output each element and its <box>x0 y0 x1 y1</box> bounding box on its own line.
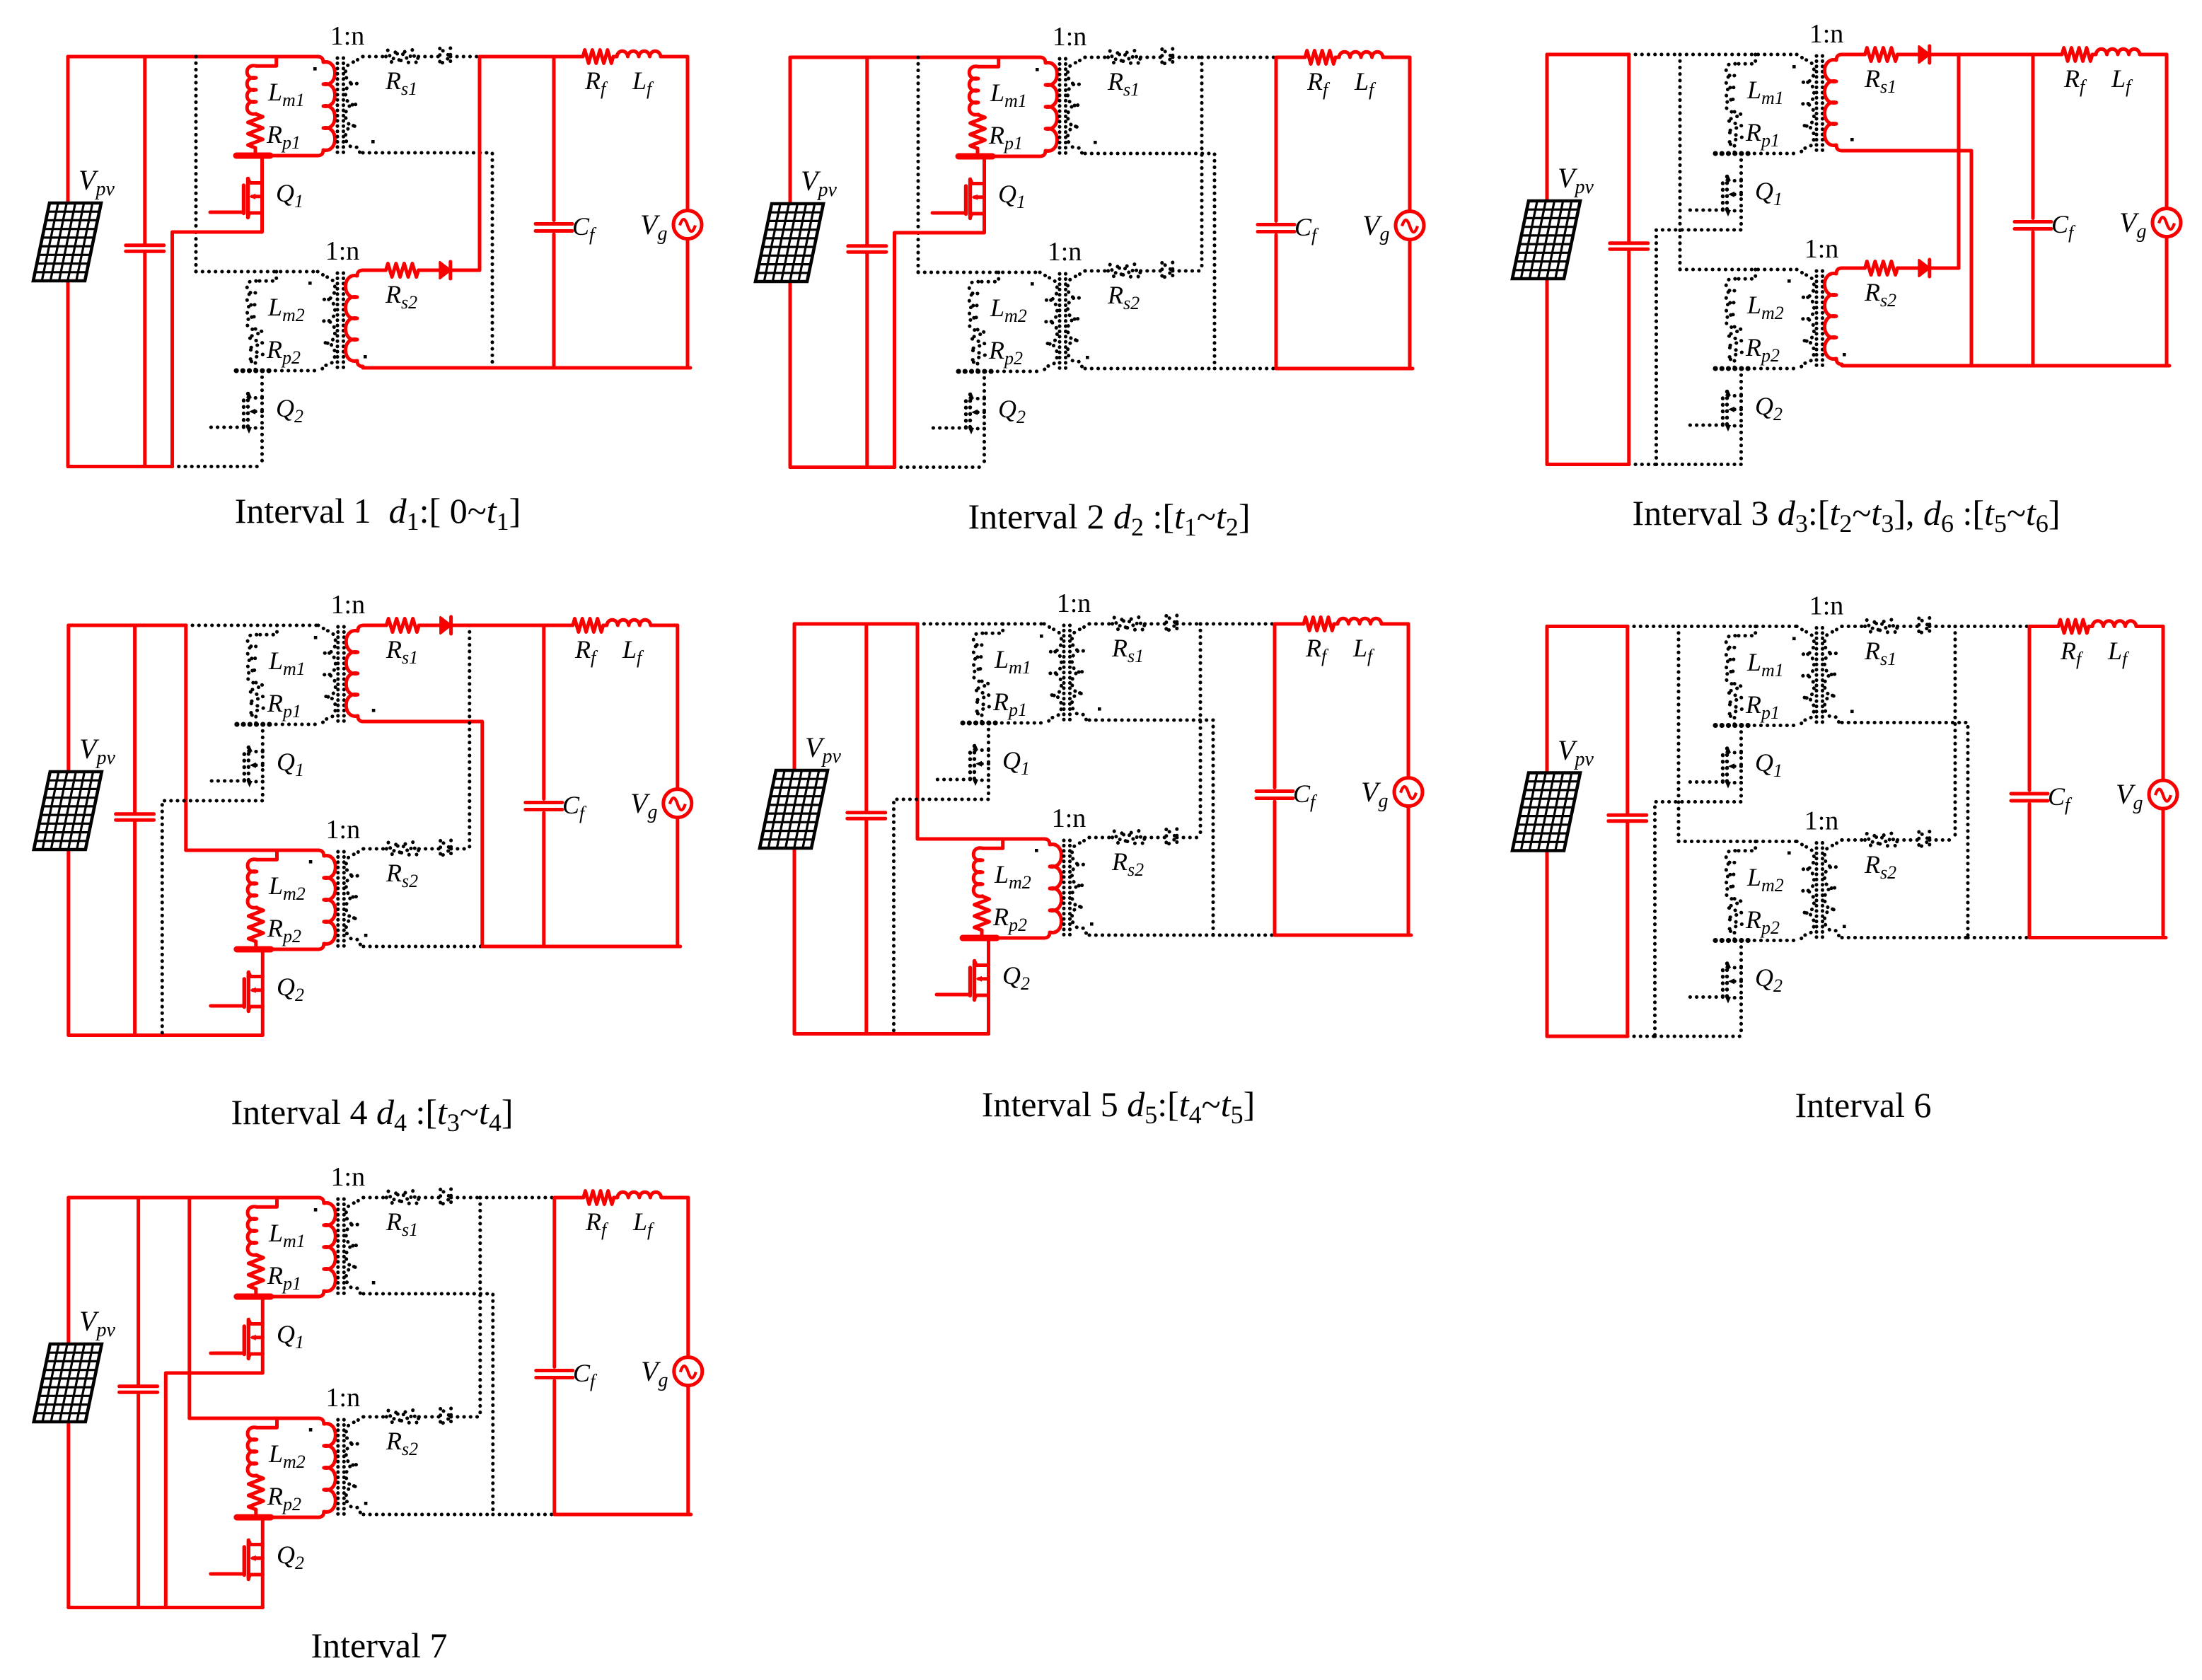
wire left rail (Vpv -) <box>789 282 792 468</box>
wire primary-2 top <box>918 271 1040 274</box>
wire Rs1 to diode <box>419 624 440 627</box>
wire secondary-1 bottom return <box>1085 153 1215 369</box>
wire top rail segment D (Cf to Rf) <box>555 1196 584 1200</box>
wire left rail (Vpv +) <box>66 1198 70 1344</box>
wire top rail segment D (Cf to Rf) <box>2029 625 2058 628</box>
core T1 <box>1064 625 1070 723</box>
wire vjoin (sec outputs to top rail) <box>478 57 482 270</box>
wire Rs1 to diode <box>1145 622 1166 626</box>
inductor Lm2 <box>1726 279 1735 328</box>
svg-text:1:n: 1:n <box>325 236 360 266</box>
phase dot T1 secondary <box>371 140 375 144</box>
phase dot T2 secondary <box>364 1502 368 1505</box>
transformer T2 primary winding (1:n) <box>318 272 335 371</box>
transformer T2 primary winding (1:n) <box>1797 842 1814 941</box>
wire top rail segment D (Cf to Rf) <box>2033 53 2062 57</box>
resistor Rp1 <box>248 683 263 717</box>
phase dot T2 primary <box>309 860 313 864</box>
inductor Lm1 branch tap wire <box>978 57 999 66</box>
resistor Rs1 <box>386 619 419 632</box>
wire left rail (Vpv +) <box>789 57 792 204</box>
capacitor Cf <box>1256 624 1293 935</box>
wire Rs2 to diode <box>1141 270 1162 273</box>
wire vjoin (sec outputs to top rail) <box>1954 627 1957 840</box>
wire primary 2 bottom + drain bar <box>958 370 1040 373</box>
wire left rail (Vpv +) <box>66 57 70 203</box>
wire Rp1 bottom stub <box>1733 718 1737 726</box>
svg-text:Interval 5 d5:[t4~t5]: Interval 5 d5:[t4~t5] <box>982 1084 1256 1129</box>
inductor Lm1 branch tap wire <box>983 624 1003 633</box>
inductor Lm1 <box>248 1207 257 1255</box>
inductor Lm2 <box>247 281 256 330</box>
wire top rail segment A <box>1547 625 1628 628</box>
wire primary-2 feed (top rail to T2) <box>1679 54 1682 270</box>
svg-text:1:n: 1:n <box>1052 804 1086 833</box>
wire Rs2 to diode <box>1898 267 1919 270</box>
wire secondary-1 bottom return <box>1089 720 1213 935</box>
svg-text:1:n: 1:n <box>1053 22 1087 52</box>
PV panel Vpv (photovoltaic source) <box>34 772 102 850</box>
transistor Q2 (MOSFET) <box>932 371 985 468</box>
phase dot T2 primary <box>309 1428 313 1432</box>
transformer T2 secondary winding <box>1068 271 1086 367</box>
transformer T2 secondary winding <box>346 270 364 366</box>
transistor Q1 (MOSFET) <box>1657 153 1742 465</box>
wire Rp1 bottom stub <box>254 1289 257 1297</box>
wire Rp1 bottom stub <box>1733 146 1737 153</box>
inductor Lf <box>2092 621 2136 627</box>
wire secondary-1 bottom return <box>1842 151 1971 366</box>
wire bottom output rail a (sec2 to return) <box>364 1513 493 1517</box>
wire primary 2 bottom + drain bar <box>963 937 1044 940</box>
transformer T1 secondary winding <box>1825 627 1843 723</box>
wire Lf to right rail <box>1383 56 1410 59</box>
wire primary-2 top <box>190 1417 318 1420</box>
wire top rail segment B1 <box>139 1196 190 1200</box>
wire top rail segment C <box>470 624 544 627</box>
wire bottom output rail a (sec2 to return) <box>1842 364 1971 368</box>
phase dot T2 secondary <box>364 355 367 359</box>
wire right rail lower <box>1408 240 1412 369</box>
resistor Rs1 <box>1108 51 1141 64</box>
wire right rail lower <box>1407 806 1410 935</box>
wire primary-2 feed (top rail to T2) <box>195 57 198 272</box>
wire Rs2 to diode <box>419 847 440 851</box>
resistor Rs2 <box>1865 833 1898 847</box>
wire top rail segment B1 <box>867 622 917 626</box>
capacitor Cin (input dc-link) <box>120 1198 158 1608</box>
wire secondary 1 top <box>1085 56 1108 59</box>
wire top rail segment B2 <box>918 56 1040 59</box>
wire top rail segment B2 <box>190 1196 318 1200</box>
transistor Q2 (MOSFET) <box>1689 941 1742 1037</box>
core T1 <box>1816 628 1823 726</box>
inductor Lm1 branch tap wire <box>257 1198 277 1207</box>
transformer T2 secondary winding <box>346 1417 364 1513</box>
diode D2 <box>441 1409 451 1425</box>
transformer T2 primary winding (1:n) <box>1044 839 1062 938</box>
wire bottom output rail b (return to Cf) <box>1213 934 1275 937</box>
transformer T1 secondary winding <box>1072 624 1090 720</box>
wire bottom rail segment A <box>1547 1035 1628 1038</box>
wire Rp2 bottom stub <box>254 363 257 371</box>
svg-text:Interval 7: Interval 7 <box>311 1626 448 1665</box>
wire right rail upper <box>2165 54 2169 209</box>
capacitor Cin (input dc-link) <box>848 57 886 468</box>
wire right rail upper <box>1407 624 1410 778</box>
wire top rail segment C <box>480 55 554 59</box>
core T1 <box>338 627 344 724</box>
transformer T1 primary winding (1:n) <box>1040 57 1057 156</box>
resistor Rp2 <box>1727 899 1742 933</box>
capacitor Cin (input dc-link) <box>1610 54 1648 465</box>
wire bottom output rail b (return to Cf) <box>1968 936 2029 939</box>
wire top rail segment B2 <box>1679 625 1797 628</box>
transformer T2 primary winding (1:n) <box>1040 272 1057 371</box>
wire vjoin (sec outputs to top rail) <box>468 625 471 849</box>
wire bottom output rail c (Cf to right rail) <box>1276 367 1413 371</box>
resistor Rf <box>584 1191 614 1205</box>
wire top rail segment D (Cf to Rf) <box>1276 56 1305 59</box>
wire right rail lower <box>676 818 679 946</box>
wire Rf to Lf <box>2089 625 2092 628</box>
wire secondary 1 top <box>1842 53 1865 57</box>
transistor Q1 (MOSFET) <box>162 724 262 1036</box>
wire diode D2 output <box>451 269 480 272</box>
transformer T1 primary winding (1:n) <box>318 57 335 156</box>
phase dot T2 secondary <box>1843 925 1846 929</box>
inductor Lm1 <box>248 635 257 683</box>
inductor Lm1 branch tap wire <box>256 57 277 66</box>
resistor Rs2 <box>1108 265 1141 278</box>
wire top rail segment D (Cf to Rf) <box>554 55 583 59</box>
inductor Lm2 branch tap wire <box>256 272 277 281</box>
wire bottom rail segment B <box>139 1606 166 1609</box>
wire vjoin (sec outputs to top rail) <box>1200 57 1204 271</box>
resistor Rp2 <box>248 908 263 942</box>
transformer T1 secondary winding <box>346 1198 364 1294</box>
wire top rail segment A <box>790 56 867 59</box>
diode D2 <box>1919 832 1930 848</box>
resistor Rs1 <box>1865 620 1898 633</box>
phase dot T1 primary <box>1036 68 1039 71</box>
wire top rail segment B1 <box>1629 53 1680 57</box>
transistor Q2 (MOSFET) <box>937 938 989 1034</box>
resistor Rp1 <box>248 1255 263 1289</box>
resistor Rp1 <box>1727 684 1742 718</box>
wire bottom rail segment A <box>1547 463 1629 466</box>
wire Rp1 bottom stub <box>254 717 257 724</box>
inductor Lm1 branch tap wire <box>1735 627 1756 636</box>
wire bottom rail segment A <box>790 465 867 469</box>
wire top rail segment B1 <box>145 55 196 59</box>
wire secondary-1 bottom return <box>1842 723 1968 938</box>
svg-text:Interval 6: Interval 6 <box>1795 1085 1932 1125</box>
resistor Rf <box>1304 618 1334 631</box>
wire diode D2 output <box>1930 267 1959 270</box>
transformer T1 secondary winding <box>346 625 364 722</box>
AC source Vg <box>1396 212 1424 240</box>
core T1 <box>1816 56 1823 153</box>
svg-text:1:n: 1:n <box>1804 806 1839 836</box>
wire vjoin (sec outputs to top rail) <box>1199 624 1203 838</box>
inductor Lm2 <box>973 848 983 896</box>
diode D1 <box>441 1190 451 1206</box>
PV panel Vpv (photovoltaic source) <box>760 770 828 848</box>
phase dot T1 secondary <box>372 1281 376 1285</box>
core T2 <box>338 852 344 949</box>
phase dot T1 primary <box>314 1208 318 1212</box>
transistor Q1 (MOSFET) <box>166 1297 262 1608</box>
wire top rail segment B2 <box>186 624 318 627</box>
wire Lf to right rail <box>661 1196 688 1200</box>
wire bottom rail segment C <box>162 1033 262 1037</box>
wire secondary 1 top <box>363 55 386 59</box>
transformer T2 primary winding (1:n) <box>318 850 336 949</box>
inductor Lm2 <box>969 282 978 330</box>
inductor Lm1 <box>969 66 978 115</box>
core T2 <box>1816 843 1823 941</box>
phase dot T2 secondary <box>1090 922 1094 926</box>
wire right rail lower <box>686 1386 690 1514</box>
wire primary-2 top <box>1679 840 1797 843</box>
phase dot T2 primary <box>1787 279 1791 283</box>
wire top rail segment A <box>68 55 145 59</box>
AC source Vg <box>664 789 692 818</box>
resistor Rs1 <box>1865 48 1898 62</box>
wire primary-2 feed (top rail to T2) <box>187 1198 191 1418</box>
wire primary 1 bottom + drain bar <box>236 154 318 158</box>
wire bottom rail segment C <box>166 1606 262 1609</box>
capacitor Cin (input dc-link) <box>126 57 164 467</box>
resistor Rs2 <box>386 1410 419 1424</box>
wire right rail lower <box>2165 237 2169 366</box>
wire right rail lower <box>2162 809 2165 937</box>
wire right rail lower <box>686 239 690 368</box>
resistor Rs1 <box>386 1191 419 1205</box>
core T2 <box>1064 840 1070 938</box>
wire top rail segment A <box>1547 53 1629 57</box>
wire Rp1 bottom stub <box>976 149 980 156</box>
resistor Rs2 <box>1865 262 1898 275</box>
wire Rf to Lf <box>1334 622 1338 626</box>
wire Rf to Lf <box>2092 53 2096 57</box>
wire left rail (Vpv -) <box>66 281 70 467</box>
inductor Lf <box>1338 618 1381 624</box>
wire left rail (Vpv +) <box>66 625 70 772</box>
wire bottom rail segment A <box>69 1606 139 1609</box>
wire bottom rail segment C <box>895 465 985 469</box>
wire secondary 2 top <box>363 269 386 272</box>
wire diode D1 output <box>1173 56 1202 59</box>
wire bottom output rail b (return to Cf) <box>1215 367 1276 371</box>
transformer T1 primary winding (1:n) <box>318 1198 336 1297</box>
AC source Vg <box>1394 778 1422 806</box>
wire top rail segment A <box>69 624 135 627</box>
svg-text:1:n: 1:n <box>1048 237 1082 267</box>
wire top rail segment D (Cf to Rf) <box>544 624 573 627</box>
resistor Rs1 <box>1113 618 1145 631</box>
transformer T1 secondary winding <box>1825 54 1843 151</box>
wire top rail segment A <box>69 1196 139 1200</box>
core T1 <box>1060 59 1066 156</box>
wire primary-2 top <box>196 270 318 274</box>
resistor Rp1 <box>975 681 990 715</box>
phase dot T1 secondary <box>372 709 376 712</box>
wire top rail segment C <box>1200 622 1275 626</box>
wire bottom output rail a (sec2 to return) <box>1842 936 1968 939</box>
wire top rail segment B1 <box>135 624 186 627</box>
resistor Rf <box>2058 620 2089 633</box>
wire diode D1 output <box>1930 625 1955 628</box>
phase dot T2 secondary <box>1086 356 1089 359</box>
transistor Q2 (MOSFET) <box>211 1517 263 1608</box>
inductor Lm2 branch tap wire <box>257 1418 277 1427</box>
wire top rail segment D (Cf to Rf) <box>1275 622 1304 626</box>
PV panel Vpv (photovoltaic source) <box>34 1344 102 1422</box>
phase dot T1 secondary <box>1094 141 1097 144</box>
capacitor Cf <box>526 625 562 946</box>
wire secondary 1 top <box>1842 625 1865 628</box>
wire Rf to Lf <box>603 624 607 627</box>
capacitor Cf <box>2011 627 2048 938</box>
resistor Rp1 <box>248 114 263 148</box>
AC source Vg <box>2152 209 2181 237</box>
transistor Q2 (MOSFET) <box>210 371 262 467</box>
wire primary 2 bottom + drain bar <box>1715 939 1797 942</box>
capacitor Cf <box>2015 54 2051 366</box>
diode D1 <box>440 49 451 65</box>
diode D1 <box>1162 50 1173 66</box>
wire vjoin (sec outputs to top rail) <box>478 1198 482 1417</box>
wire secondary 1 top <box>364 1196 387 1200</box>
PV panel Vpv (photovoltaic source) <box>1512 773 1580 851</box>
wire bottom output rail c (Cf to right rail) <box>554 366 690 370</box>
wire bottom rail segment B <box>145 465 173 468</box>
transistor Q1 (MOSFET) <box>895 156 985 468</box>
wire top rail segment B1 <box>867 56 918 59</box>
resistor Rf <box>1305 51 1335 64</box>
capacitor Cin (input dc-link) <box>1609 627 1647 1037</box>
wire Rs1 to diode <box>419 55 440 59</box>
wire bottom output rail b (return to Cf) <box>482 945 544 949</box>
transformer T2 secondary winding <box>1825 268 1843 364</box>
wire bottom output rail a (sec2 to return) <box>1089 934 1213 937</box>
wire secondary 2 top <box>1842 267 1865 270</box>
inductor Lm1 <box>247 66 256 114</box>
wire Rp1 bottom stub <box>254 148 257 156</box>
wire Rp2 bottom stub <box>254 1510 257 1517</box>
wire diode D2 output <box>1173 270 1202 273</box>
core T2 <box>1060 274 1066 371</box>
inductor Lf <box>607 620 651 625</box>
wire Rs1 to diode <box>1898 625 1919 628</box>
transistor Q1 (MOSFET) <box>1655 726 1742 1037</box>
transformer T1 primary winding (1:n) <box>318 625 336 724</box>
transistor Q1 (MOSFET) <box>173 156 262 467</box>
svg-text:1:n: 1:n <box>1804 234 1839 264</box>
core T1 <box>338 1199 344 1297</box>
wire secondary-1 bottom return <box>364 1294 493 1514</box>
wire Rf to Lf <box>613 55 617 59</box>
phase dot T2 secondary <box>1843 353 1846 357</box>
wire secondary 2 top <box>1085 270 1108 273</box>
PV panel Vpv (photovoltaic source) <box>33 203 101 281</box>
diode D2 <box>441 841 451 857</box>
wire Rp2 bottom stub <box>980 930 984 938</box>
transistor Q2 (MOSFET) <box>211 949 263 1036</box>
wire bottom output rail b (return to Cf) <box>492 366 554 370</box>
wire right rail upper <box>686 1198 690 1357</box>
diode D2 <box>1166 830 1177 846</box>
wire primary-2 feed (top rail to T2) <box>916 624 920 839</box>
wire right rail upper <box>676 625 679 789</box>
resistor Rf <box>573 619 603 632</box>
svg-text:1:n: 1:n <box>1809 19 1844 49</box>
svg-text:1:n: 1:n <box>326 815 361 845</box>
inductor Lm2 branch tap wire <box>1735 270 1756 279</box>
diode D2 <box>440 262 451 279</box>
inductor Lm2 <box>248 859 257 908</box>
wire top rail segment C <box>1955 625 2029 628</box>
wire bottom output rail b (return to Cf) <box>1971 364 2033 368</box>
phase dot T1 primary <box>313 67 317 71</box>
wire diode D2 output <box>1930 838 1955 842</box>
wire Rs2 to diode <box>1898 838 1919 842</box>
wire left rail (Vpv -) <box>1546 851 1549 1037</box>
wire Lf to right rail <box>651 624 678 627</box>
wire diode D2 output <box>451 1415 480 1419</box>
svg-text:Interval 4 d4 :[t3~t4]: Interval 4 d4 :[t3~t4] <box>231 1092 513 1137</box>
wire diode D1 output <box>1177 622 1200 626</box>
wire top rail segment C <box>1959 53 2033 57</box>
wire secondary 2 top <box>364 1415 387 1419</box>
wire top rail segment A <box>794 622 867 626</box>
inductor Lf <box>617 51 661 57</box>
wire bottom rail segment A <box>69 1033 135 1037</box>
resistor Rf <box>2062 48 2092 62</box>
wire top rail segment B2 <box>917 622 1044 626</box>
phase dot T2 secondary <box>364 934 368 937</box>
transformer T2 secondary winding <box>1825 840 1843 937</box>
wire secondary-1 bottom return <box>364 722 482 946</box>
wire Rs2 to diode <box>419 269 440 272</box>
diode D1 <box>1166 616 1177 632</box>
resistor Rp2 <box>248 1476 263 1510</box>
capacitor Cf <box>535 57 572 368</box>
core T2 <box>1816 271 1823 369</box>
wire Rs1 to diode <box>1898 53 1919 57</box>
phase dot T1 primary <box>314 636 318 639</box>
capacitor Cf <box>536 1198 573 1514</box>
resistor Rp1 <box>1727 112 1742 146</box>
resistor Rp2 <box>975 896 990 930</box>
inductor Lm2 branch tap wire <box>983 839 1003 848</box>
transformer T1 primary winding (1:n) <box>1797 627 1814 726</box>
wire bottom output rail a (sec2 to return) <box>1085 367 1215 371</box>
wire bottom rail segment A <box>794 1032 867 1036</box>
wire primary-2 feed (top rail to T2) <box>917 57 920 272</box>
transformer T1 secondary winding <box>346 57 364 153</box>
transformer T2 primary winding (1:n) <box>318 1418 336 1517</box>
wire primary-2 feed (top rail to T2) <box>184 625 187 850</box>
svg-text:1:n: 1:n <box>1809 591 1844 621</box>
wire diode D1 output <box>451 1196 480 1200</box>
wire bottom output rail c (Cf to right rail) <box>2033 364 2169 368</box>
wire top rail segment C <box>480 1196 555 1200</box>
phase dot T1 primary <box>1792 637 1796 641</box>
core T2 <box>338 1420 344 1517</box>
